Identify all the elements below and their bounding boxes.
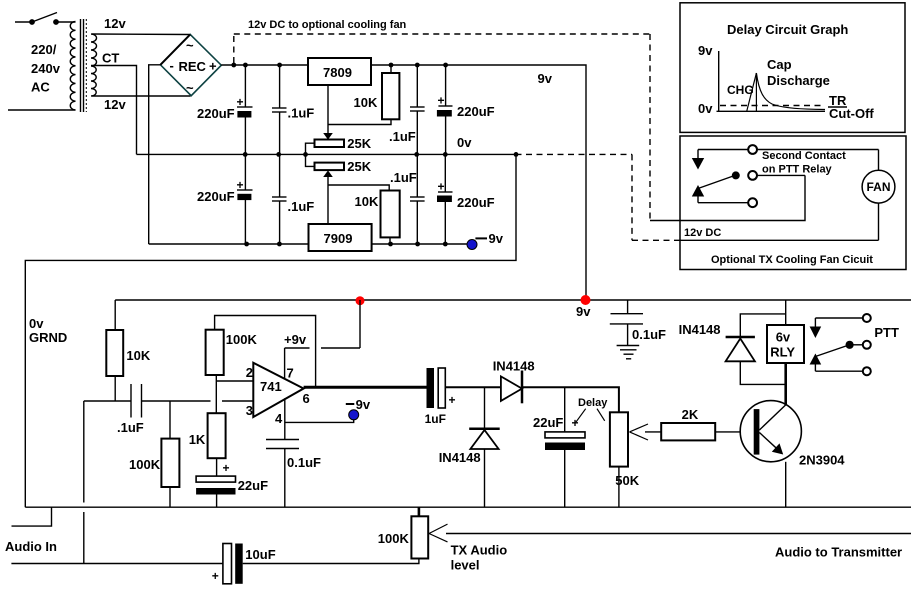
capacitor .1uF audio coupling xyxy=(84,384,211,435)
label Audio In xyxy=(5,539,57,554)
capacitor .1uF (left, top row) xyxy=(272,65,314,154)
label 12v bottom xyxy=(104,97,126,112)
junction dots on +12v rail xyxy=(231,63,448,68)
svg-text:100K: 100K xyxy=(378,531,410,546)
svg-text:REC: REC xyxy=(179,59,207,74)
capacitor .1uF (right col, bottom row) xyxy=(390,154,425,244)
svg-text:9v: 9v xyxy=(489,231,504,246)
svg-text:2N3904: 2N3904 xyxy=(799,453,845,468)
svg-text:0v: 0v xyxy=(457,135,472,150)
graph axes xyxy=(717,51,826,111)
svg-text:Audio to Transmitter: Audio to Transmitter xyxy=(775,545,902,560)
svg-text:Optional TX Cooling Fan Cicuit: Optional TX Cooling Fan Cicuit xyxy=(711,254,873,266)
wire 0v wrap-around to lower ground xyxy=(25,154,516,507)
bridge rectifier REC xyxy=(160,34,221,95)
svg-text:7909: 7909 xyxy=(324,231,353,246)
svg-text:+: + xyxy=(237,95,244,109)
svg-text:741: 741 xyxy=(260,379,282,394)
label 12v DC xyxy=(684,227,721,239)
svg-text:0.1uF: 0.1uF xyxy=(632,327,666,342)
svg-text:12v DC: 12v DC xyxy=(684,227,721,239)
svg-text:FAN: FAN xyxy=(867,180,891,194)
label 0v xyxy=(457,135,472,150)
wire pin3 xyxy=(222,400,253,402)
svg-text:Second Contact: Second Contact xyxy=(762,150,846,162)
svg-text:GRND: GRND xyxy=(29,330,67,345)
resistor 10K (lower) xyxy=(355,191,400,245)
svg-text:+: + xyxy=(449,393,456,407)
svg-text:10K: 10K xyxy=(354,95,378,110)
svg-text:25K: 25K xyxy=(347,159,371,174)
wire secondary top lead 12v xyxy=(92,33,190,36)
label 12v DC to optional cooling fan xyxy=(248,19,407,31)
potentiometer 100K TX audio level xyxy=(378,507,448,558)
svg-text:3: 3 xyxy=(246,403,253,418)
svg-text:9v: 9v xyxy=(576,304,591,319)
label 12v top xyxy=(104,16,126,31)
label Second Contact on PTT Relay xyxy=(762,150,846,176)
relay 6v RLY xyxy=(767,325,804,363)
wire pin2 xyxy=(216,380,253,382)
capacitor 22uF delay xyxy=(533,415,585,507)
op-amp 741 xyxy=(246,363,310,426)
resistor 2K xyxy=(661,407,754,440)
svg-text:10uF: 10uF xyxy=(245,547,275,562)
capacitor 0.1uF decoupling with ground xyxy=(610,300,666,346)
svg-text:+: + xyxy=(438,94,445,108)
svg-text:100K: 100K xyxy=(129,457,161,472)
fan relay second contact on PTT relay xyxy=(650,145,879,220)
transformer T1 secondary winding xyxy=(91,34,97,96)
wire junction down to shunt diode xyxy=(484,387,486,428)
wire secondary bottom lead 12v xyxy=(92,95,191,97)
svg-text:6v: 6v xyxy=(776,330,791,345)
svg-text:7: 7 xyxy=(287,366,294,381)
svg-text:6: 6 xyxy=(303,391,310,406)
svg-text:.1uF: .1uF xyxy=(117,420,144,435)
wire 9v rail to relay box xyxy=(785,300,787,325)
svg-text:-: - xyxy=(170,58,174,73)
svg-text:~: ~ xyxy=(186,81,194,96)
svg-text:AC: AC xyxy=(31,80,50,95)
svg-text:Audio In: Audio In xyxy=(5,539,57,554)
wire audio input line xyxy=(11,563,223,565)
box Delay Circuit Graph xyxy=(680,3,905,133)
capacitor .1uF (right col, top row) xyxy=(389,65,425,154)
wire audio input riser xyxy=(83,401,85,564)
label 9v lower xyxy=(576,304,591,319)
wire 1uF to diode xyxy=(445,386,501,388)
switch S1 in mains line xyxy=(15,13,76,25)
svg-text:.1uF: .1uF xyxy=(389,129,416,144)
wire 7909 adj branch to lower 10K xyxy=(328,185,389,191)
svg-text:.1uF: .1uF xyxy=(288,106,315,121)
wire collector to relay (thick) xyxy=(784,363,787,405)
capacitor .1uF (left, bottom row) xyxy=(272,154,314,244)
graph labels xyxy=(698,43,874,121)
resistor 100K input load xyxy=(129,401,179,507)
label 9v top xyxy=(538,71,553,86)
node 9v red dot (op-amp supply) xyxy=(356,296,365,305)
dashed 0v line to fan box xyxy=(516,154,675,240)
svg-text:level: level xyxy=(451,558,480,573)
svg-text:0v: 0v xyxy=(698,101,713,116)
capacitor 22uF gain bypass xyxy=(196,458,268,507)
dashed 12v DC line to fan box xyxy=(234,34,650,221)
svg-text:on PTT Relay: on PTT Relay xyxy=(762,164,833,176)
svg-text:12v DC to optional cooling fan: 12v DC to optional cooling fan xyxy=(248,19,407,31)
label 220/240v AC xyxy=(31,42,61,95)
wire audio to transmitter xyxy=(446,533,911,535)
svg-text:RLY: RLY xyxy=(770,345,795,360)
svg-text:240v: 240v xyxy=(31,61,61,76)
svg-text:+9v: +9v xyxy=(284,332,307,347)
node -9v blue dot xyxy=(346,397,371,420)
underline of TR xyxy=(828,106,847,108)
svg-text:220uF: 220uF xyxy=(457,195,495,210)
svg-text:2K: 2K xyxy=(682,407,699,422)
svg-text:1K: 1K xyxy=(189,432,206,447)
svg-text:9v: 9v xyxy=(356,397,371,412)
svg-text:Cut-Off: Cut-Off xyxy=(829,106,874,121)
svg-text:100K: 100K xyxy=(226,332,258,347)
resistor 10K (top right of 7809) xyxy=(328,65,399,125)
wire 100K bottom to 1K top xyxy=(215,375,217,413)
capacitor 1uF xyxy=(425,368,456,426)
svg-text:2: 2 xyxy=(246,365,253,380)
wire op-amp output (thick) xyxy=(304,386,427,389)
capacitor 220uF (right col, top row) xyxy=(437,65,495,154)
svg-text:Discharge: Discharge xyxy=(767,73,830,88)
svg-text:220uF: 220uF xyxy=(197,189,235,204)
svg-text:+: + xyxy=(209,59,217,74)
svg-text:220uF: 220uF xyxy=(457,104,495,119)
wire CT tap xyxy=(91,66,137,155)
wire REC minus to left vertical xyxy=(149,65,161,244)
diode IN4148 flyback xyxy=(679,314,786,385)
resistor 100K feedback xyxy=(206,316,316,388)
svg-text:22uF: 22uF xyxy=(533,415,563,430)
svg-text:9v: 9v xyxy=(538,71,553,86)
label Audio to Transmitter xyxy=(775,545,902,560)
svg-text:25K: 25K xyxy=(347,136,371,151)
svg-text:~: ~ xyxy=(186,38,194,53)
potentiometer 25K (lower) xyxy=(315,159,372,224)
svg-text:PTT: PTT xyxy=(874,325,899,340)
label TX Audio level xyxy=(451,543,508,573)
capacitor 220uF (left, top row) xyxy=(197,65,253,154)
box Optional TX Cooling Fan Cicuit xyxy=(680,136,906,270)
node 9v red dot (psu feed) xyxy=(581,295,591,305)
svg-text:.1uF: .1uF xyxy=(288,199,315,214)
svg-text:22uF: 22uF xyxy=(238,478,268,493)
label 0v GRND xyxy=(29,316,67,345)
svg-text:220uF: 220uF xyxy=(197,106,235,121)
label CT xyxy=(102,51,119,66)
svg-text:4: 4 xyxy=(275,411,283,426)
fan motor FAN xyxy=(674,150,895,241)
svg-text:IN4148: IN4148 xyxy=(439,450,481,465)
9v rail lower section xyxy=(115,299,911,301)
svg-text:IN4148: IN4148 xyxy=(493,359,535,374)
wire pin 4 to -9v dot xyxy=(285,398,354,439)
potentiometer 50K xyxy=(610,412,661,507)
wire primary bottom lead xyxy=(8,109,76,111)
svg-text:12v: 12v xyxy=(104,16,126,31)
potentiometer 25K (upper) xyxy=(306,136,372,166)
svg-text:220/: 220/ xyxy=(31,42,57,57)
resistor 10K mic bias xyxy=(106,300,151,401)
svg-text:10K: 10K xyxy=(355,194,379,209)
wire 10uF to TX pot xyxy=(243,559,419,564)
label Delay with pointers xyxy=(576,397,608,422)
ground rail lower section xyxy=(25,506,911,508)
svg-text:50K: 50K xyxy=(615,473,639,488)
svg-text:Delay Circuit Graph: Delay Circuit Graph xyxy=(727,22,848,37)
capacitor 10uF xyxy=(212,544,276,584)
svg-text:IN4148: IN4148 xyxy=(679,322,721,337)
svg-text:1uF: 1uF xyxy=(425,412,446,426)
wire +9v supply to pin 7 xyxy=(284,300,360,378)
svg-text:9v: 9v xyxy=(698,43,713,58)
svg-text:0v: 0v xyxy=(29,316,44,331)
svg-text:Cap: Cap xyxy=(767,57,792,72)
relay contacts PTT xyxy=(810,314,899,375)
svg-text:TX Audio: TX Audio xyxy=(451,543,508,558)
0v rail xyxy=(137,153,516,155)
wire junction down to 22uF delay xyxy=(564,387,566,432)
transformer T1 primary winding xyxy=(70,22,75,111)
capacitor 220uF (right col, bottom row) xyxy=(437,154,495,244)
resistor 1K xyxy=(189,413,226,458)
svg-text:Delay: Delay xyxy=(578,397,608,409)
svg-text:.1uF: .1uF xyxy=(390,170,417,185)
wire diode to 50K xyxy=(522,387,619,412)
svg-text:+: + xyxy=(572,416,579,430)
graph curve cap charge/discharge xyxy=(747,73,825,111)
svg-text:10K: 10K xyxy=(126,348,150,363)
svg-text:+: + xyxy=(237,178,244,192)
svg-text:0.1uF: 0.1uF xyxy=(287,455,321,470)
svg-text:+: + xyxy=(223,461,230,475)
svg-text:7809: 7809 xyxy=(323,65,352,80)
svg-text:+: + xyxy=(438,180,445,194)
diode IN4148 series xyxy=(493,359,535,404)
svg-text:CHG: CHG xyxy=(727,83,754,97)
diode IN4148 shunt xyxy=(439,429,500,508)
junction dots on 0v rail xyxy=(243,152,519,157)
transformer T1 core xyxy=(81,19,87,112)
regulator 7909 xyxy=(309,224,372,251)
svg-text:+: + xyxy=(212,569,219,583)
regulator 7809 xyxy=(308,58,371,140)
svg-text:CT: CT xyxy=(102,51,119,66)
capacitor 220uF (left, bottom row) xyxy=(197,154,253,244)
wire +12v rail to 9v corner xyxy=(221,65,586,300)
wire audio-in ground stub xyxy=(12,507,52,526)
capacitor 0.1uF op-amp xyxy=(266,440,321,508)
ground symbol xyxy=(617,346,640,359)
-9v rail xyxy=(149,243,467,245)
svg-text:12v: 12v xyxy=(104,97,126,112)
node -9v blue dot xyxy=(467,231,504,250)
junction dots on -9v rail xyxy=(244,242,447,247)
wire emitter to ground rail xyxy=(785,462,787,507)
transistor 2N3904 xyxy=(740,401,845,468)
